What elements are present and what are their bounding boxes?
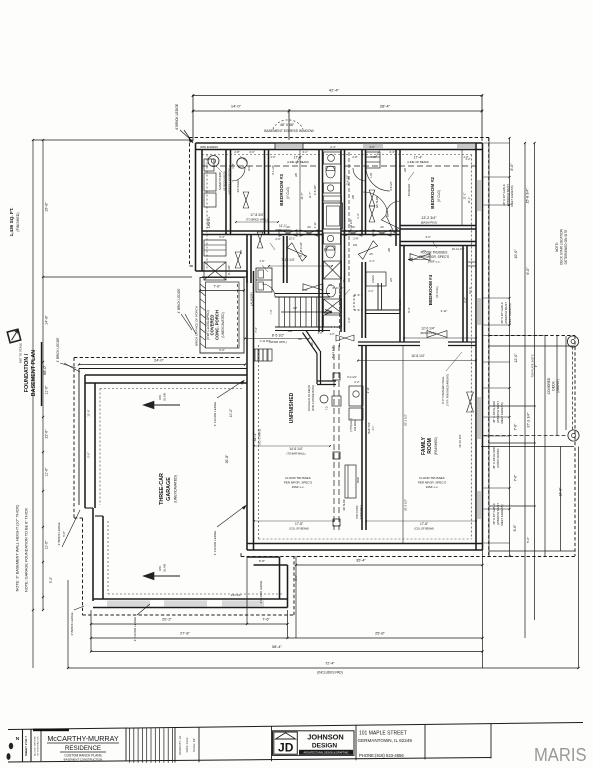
svg-text:35'-4": 35'-4" (356, 559, 366, 563)
svg-text:(LINE OF BEAM): (LINE OF BEAM) (287, 160, 309, 164)
svg-text:28'-4": 28'-4" (380, 104, 391, 109)
svg-text:19SF o.c.: 19SF o.c. (428, 260, 441, 264)
svg-text:4' BRICK LEDGE: 4' BRICK LEDGE (177, 289, 181, 314)
svg-text:12'-0": 12'-0" (514, 353, 518, 363)
deck post circles (567, 336, 578, 347)
svg-text:1'-4": 1'-4" (231, 163, 235, 168)
svg-text:RESIDENCE: RESIDENCE (65, 745, 101, 752)
stair treads (278, 297, 280, 327)
svg-text:1'-0": 1'-0" (347, 317, 351, 322)
svg-text:1,436 SQ. FT.: 1,436 SQ. FT. (9, 208, 14, 237)
svg-text:42'-4": 42'-4" (329, 88, 340, 93)
svg-text:MARIS: MARIS (534, 744, 587, 765)
svg-text:7'-6": 7'-6" (514, 474, 518, 482)
garage top wall (79, 368, 247, 370)
svg-text:DETERMINED ON SITE: DETERMINED ON SITE (564, 230, 568, 265)
svg-text:4' BRICK LEDGE: 4' BRICK LEDGE (70, 612, 74, 635)
svg-text:PER MFGR. SPEC'S: PER MFGR. SPEC'S (284, 481, 312, 485)
svg-text:TOP PLATE JNSTS: TOP PLATE JNSTS (531, 354, 535, 377)
left segmented dimension line (42, 140, 44, 610)
deck bottom dimension extension (246, 556, 248, 624)
svg-text:(VERIFY LOCATION): (VERIFY LOCATION) (227, 168, 231, 195)
svg-text:68'-0": 68'-0" (43, 365, 47, 375)
svg-text:4'-0": 4'-0" (249, 150, 254, 154)
svg-text:BASEMENT EGRESS WINDOW: BASEMENT EGRESS WINDOW (264, 129, 314, 133)
west exterior wall upper (195, 143, 197, 271)
svg-text:4'-8 1/4": 4'-8 1/4" (389, 181, 393, 191)
svg-text:4' FLOOR LEDGE: 4' FLOOR LEDGE (213, 402, 217, 426)
dim 16-8 (358, 360, 476, 362)
svg-text:2/0: 2/0 (294, 173, 298, 177)
svg-text:GERMANTOWN, IL 62249: GERMANTOWN, IL 62249 (358, 738, 413, 743)
stair up arrow (281, 311, 332, 313)
svg-text:SLAB: SLAB (163, 564, 167, 572)
covered deck dashed outline (489, 335, 575, 337)
svg-text:15'-8 3/4": 15'-8 3/4" (526, 188, 530, 204)
row2 shelves (204, 240, 226, 256)
svg-text:17'-8": 17'-8" (295, 522, 303, 526)
svg-text:4'-0": 4'-0" (369, 145, 374, 149)
svg-text:1'-11": 1'-11" (313, 222, 317, 229)
hall dashed centerline (348, 152, 350, 283)
svg-text:2/0: 2/0 (403, 168, 407, 172)
sump pump (208, 156, 219, 167)
svg-text:4'-0": 4'-0" (270, 155, 275, 159)
svg-text:101 MAPLE STREET: 101 MAPLE STREET (359, 731, 407, 737)
svg-text:4'-1 1/2": 4'-1 1/2" (271, 165, 275, 175)
kitchenette (349, 386, 363, 406)
sldr double doors (369, 190, 375, 206)
utility fixtures (204, 173, 216, 191)
svg-text:MEET EGRESS): MEET EGRESS) (500, 402, 504, 423)
svg-text:4'-0": 4'-0" (370, 155, 375, 159)
svg-text:DATE: 04-02: DATE: 04-02 (185, 737, 189, 752)
svg-text:(9' CLG): (9' CLG) (435, 286, 439, 297)
svg-text:ROUGH-IN AS REQ'D: ROUGH-IN AS REQ'D (307, 385, 311, 411)
svg-text:72'-4": 72'-4" (325, 662, 335, 666)
family room door (467, 392, 474, 412)
doors along hall wall (279, 230, 297, 236)
beam line with columns (333, 345, 335, 530)
utility extra shelf (204, 159, 214, 171)
svg-text:(TYP(ALL)): (TYP(ALL)) (349, 418, 353, 431)
left overall dimension line 68-0 (32, 140, 34, 668)
svg-text:4/0 WHLD: 4/0 WHLD (236, 180, 240, 193)
bath east wall (340, 150, 342, 284)
svg-text:MEET EGRESS): MEET EGRESS) (500, 504, 504, 525)
svg-text:4050 EGRESS: 4050 EGRESS (200, 145, 218, 149)
svg-text:2'-8": 2'-8" (352, 155, 357, 159)
svg-text:7'-3": 7'-3" (254, 327, 258, 332)
svg-text:2/6: 2/6 (387, 248, 391, 252)
svg-text:FLOOR TRUSSES: FLOOR TRUSSES (285, 476, 310, 480)
svg-text:37'-3 1/4": 37'-3 1/4" (527, 412, 531, 428)
svg-text:36R: 36R (288, 329, 293, 333)
scan specks left of title (9, 743, 13, 749)
svg-text:DRAWN BY: J.D.: DRAWN BY: J.D. (178, 735, 182, 755)
title block top border (8, 723, 583, 730)
svg-text:4/0 SLDR: 4/0 SLDR (375, 196, 379, 208)
svg-text:(9' CLG): (9' CLG) (437, 190, 441, 202)
svg-text:10'-0": 10'-0" (514, 249, 518, 259)
svg-text:2'-11": 2'-11" (366, 387, 370, 393)
family room north wall (358, 341, 420, 343)
svg-text:3/0: 3/0 (298, 337, 302, 341)
dimension 42-4 top line (193, 95, 482, 97)
svg-text:5'-0 1/4": 5'-0 1/4" (299, 242, 303, 252)
svg-text:COVERED: COVERED (547, 377, 551, 394)
title block verticals (22, 729, 24, 761)
dimension 20-2 and 7-6 (91, 623, 288, 625)
svg-text:6'-1 3/4": 6'-1 3/4" (227, 265, 231, 275)
svg-text:(9' CLG): (9' CLG) (286, 187, 290, 199)
svg-text:(INCLUDES PAD): (INCLUDES PAD) (317, 671, 342, 675)
svg-text:11'-1": 11'-1" (467, 197, 471, 204)
svg-text:2/6: 2/6 (307, 226, 311, 229)
svg-text:11'-6": 11'-6" (45, 540, 49, 549)
svg-text:3'-0": 3'-0" (318, 332, 323, 335)
svg-text:2'-8": 2'-8" (353, 237, 358, 241)
svg-text:2'-0": 2'-0" (330, 333, 335, 336)
svg-text:(UNEXCAVATED): (UNEXCAVATED) (221, 312, 225, 337)
svg-text:BASEMENT PLAN: BASEMENT PLAN (31, 350, 37, 397)
svg-text:NOTE:: NOTE: (555, 242, 559, 252)
dimension 58-4 (91, 651, 483, 653)
svg-text:(PATIO DOOR): (PATIO DOOR) (496, 448, 500, 467)
svg-text:SHEET 2 OF 7: SHEET 2 OF 7 (24, 736, 28, 756)
svg-text:13'-2 3/4": 13'-2 3/4" (421, 216, 437, 220)
svg-text:17'-8 3/4": 17'-8 3/4" (250, 213, 263, 217)
svg-text:JD: JD (278, 741, 294, 755)
svg-text:5'-4": 5'-4" (219, 235, 224, 239)
water heater (237, 158, 247, 168)
svg-text:BY CONTRACTOR: BY CONTRACTOR (37, 736, 40, 755)
svg-text:BAR TOP: BAR TOP (367, 422, 371, 434)
bottom extension lines (67, 580, 69, 668)
svg-text:10'-11 1/4": 10'-11 1/4" (452, 247, 465, 251)
covered conc porch outline (200, 278, 244, 354)
svg-text:1'-2": 1'-2" (465, 157, 470, 161)
svg-text:5'-3": 5'-3" (407, 307, 411, 312)
svg-text:FLOOR TRUSSES: FLOOR TRUSSES (421, 251, 448, 255)
svg-text:7'-10 1/4": 7'-10 1/4" (281, 258, 294, 262)
svg-text:36'-10 3/4": 36'-10 3/4" (458, 434, 462, 447)
svg-text:2'-2": 2'-2" (463, 297, 467, 302)
dimension 14-0 / 28-4 line (193, 110, 482, 112)
svg-text:27'-8": 27'-8" (180, 632, 190, 636)
svg-text:4' BRICK LEDGE: 4' BRICK LEDGE (175, 103, 179, 130)
svg-text:MEET EGRESS): MEET EGRESS) (510, 185, 514, 206)
svg-text:(COL OF BEAM): (COL OF BEAM) (289, 527, 308, 531)
svg-text:CONC. PORCH: CONC. PORCH (215, 310, 220, 340)
svg-text:25'-2 1/2": 25'-2 1/2" (404, 499, 408, 511)
svg-text:PER MFGR. SPEC'S: PER MFGR. SPEC'S (418, 481, 446, 485)
svg-text:2/4: 2/4 (239, 250, 243, 254)
bedroom3 west wall (264, 150, 266, 235)
garage southeast jog wall (279, 557, 281, 599)
svg-text:26'-8": 26'-8" (225, 454, 229, 463)
svg-text:14'-0": 14'-0" (231, 104, 242, 109)
svg-text:(IF REQUIRED): (IF REQUIRED) (223, 171, 227, 191)
svg-text:PHONE:(618) 523-4656: PHONE:(618) 523-4656 (359, 753, 404, 758)
garage west wall lower (92, 508, 94, 601)
svg-text:4' FLOOR LEDGE: 4' FLOOR LEDGE (213, 531, 217, 555)
svg-text:4/0 WHLD: 4/0 WHLD (407, 184, 411, 196)
svg-text:5'-9 1/4": 5'-9 1/4" (331, 325, 342, 329)
svg-text:2/6: 2/6 (380, 226, 384, 229)
svg-text:2'-8 1/2": 2'-8 1/2" (313, 185, 317, 195)
svg-text:THREE-CAR: THREE-CAR (159, 473, 165, 505)
svg-text:3'-0": 3'-0" (425, 235, 430, 239)
svg-text:SUMP PUMP: SUMP PUMP (218, 172, 222, 190)
svg-text:12'-1": 12'-1" (289, 237, 296, 241)
svg-text:ALL DIM. VERIFIED: ALL DIM. VERIFIED (34, 736, 37, 756)
room center window lines (299, 150, 301, 231)
hall centerline lower segment (339, 283, 341, 348)
svg-text:16'-8 1/4": 16'-8 1/4" (411, 354, 424, 358)
svg-text:JOHNSON: JOHNSON (307, 733, 344, 742)
svg-text:8'-0": 8'-0" (510, 163, 514, 171)
line of beam upper (202, 165, 319, 167)
svg-text:11'-1": 11'-1" (463, 193, 467, 200)
porch width dimension 7-0 (200, 290, 244, 292)
svg-text:16'-8": 16'-8" (45, 202, 49, 212)
svg-text:11'-6": 11'-6" (87, 409, 91, 416)
bar counter (345, 465, 356, 498)
stair walls (275, 293, 330, 295)
svg-text:7'-6": 7'-6" (262, 618, 270, 622)
row2 divider wall (283, 236, 285, 283)
north arrow (7, 329, 20, 342)
garage south wall (93, 598, 288, 600)
svg-text:6'-0 3/4": 6'-0 3/4" (333, 286, 344, 290)
svg-text:McCARTHY-MURRAY: McCARTHY-MURRAY (47, 734, 119, 743)
title block bottom border (8, 758, 491, 763)
svg-text:32'-1": 32'-1" (253, 432, 257, 441)
svg-text:11'-6": 11'-6" (45, 385, 49, 394)
svg-text:(UNEXCAVATED): (UNEXCAVATED) (174, 475, 178, 503)
linen closet top (366, 152, 380, 168)
svg-text:19SF o.c.: 19SF o.c. (426, 485, 439, 489)
dashed ledge bottom of house and deck (241, 556, 575, 558)
svg-text:LIN: LIN (353, 243, 357, 247)
svg-text:3'-11": 3'-11" (441, 309, 448, 313)
svg-text:5'-8": 5'-8" (62, 531, 66, 537)
svg-text:2/4: 2/4 (389, 278, 393, 282)
window openings east wall (477, 180, 482, 211)
west exterior wall lower (246, 271, 248, 550)
svg-text:48" X 48": 48" X 48" (280, 123, 295, 127)
svg-text:22'-6": 22'-6" (45, 429, 49, 439)
right wall extension lines (484, 142, 510, 144)
svg-text:2'-2": 2'-2" (354, 380, 359, 384)
svg-text:NOTE: 9" BASEMENT WALL HEIGHT: NOTE: 9" BASEMENT WALL HEIGHT (10'" THIC… (16, 504, 20, 591)
svg-text:4' BRICK LEDGE: 4' BRICK LEDGE (56, 338, 60, 363)
svg-text:4/0 SLDR: 4/0 SLDR (398, 299, 402, 311)
svg-text:3": 3" (534, 365, 538, 367)
svg-text:25'-8": 25'-8" (375, 632, 385, 636)
bedroom2 west wall (395, 150, 397, 247)
svg-text:4" WD WALL: 4" WD WALL (359, 504, 363, 520)
svg-text:3'-1": 3'-1" (302, 150, 307, 154)
svg-text:8'-0" FINISHED WALL: 8'-0" FINISHED WALL (441, 376, 445, 404)
svg-text:BEDROOM #3: BEDROOM #3 (279, 174, 285, 206)
garage side stair rail detail (254, 349, 256, 361)
egress window frame (274, 143, 276, 150)
svg-text:25'-2 1/2": 25'-2 1/2" (404, 414, 408, 426)
svg-text:(TO BAR WALL): (TO BAR WALL) (286, 452, 305, 456)
svg-text:58'-4": 58'-4" (272, 645, 282, 649)
bath2 fixtures (324, 233, 341, 244)
svg-text:5'-0": 5'-0" (87, 452, 91, 458)
svg-text:LINEN: LINEN (371, 275, 375, 283)
svg-text:5'-0": 5'-0" (219, 348, 225, 352)
svg-text:DECK STAIR LOCATION: DECK STAIR LOCATION (560, 228, 564, 265)
closet door arc room2 (232, 168, 245, 181)
svg-text:ROOM: ROOM (427, 438, 433, 454)
svg-text:6'-2 1/4": 6'-2 1/4" (347, 375, 357, 379)
svg-text:BEDROOM #2: BEDROOM #2 (430, 177, 436, 209)
svg-text:RD.: RD. (158, 565, 162, 570)
svg-text:(TO STAIRS): (TO STAIRS) (258, 429, 262, 445)
svg-text:17'-8": 17'-8" (420, 522, 428, 526)
svg-text:(COL OF BEAM): (COL OF BEAM) (414, 527, 433, 531)
svg-text:GARAGE: GARAGE (166, 477, 172, 501)
road slab arrow lower (152, 575, 180, 577)
svg-text:5'-2": 5'-2" (49, 577, 53, 583)
south exterior wall (247, 543, 483, 545)
svg-text:PKT 6 6PR: PKT 6 6PR (355, 505, 359, 518)
svg-text:FOUNDATION /: FOUNDATION / (24, 353, 30, 392)
svg-text:17'-4": 17'-4" (414, 156, 423, 160)
road slab arrow upper (152, 404, 180, 406)
title header black bar (33, 729, 69, 732)
svg-text:SCALE: 1/4": SCALE: 1/4" (192, 738, 196, 753)
svg-text:BAR: BAR (356, 477, 360, 483)
svg-text:6'-6": 6'-6" (513, 524, 517, 532)
svg-text:4' FLOOR LEDGE: 4' FLOOR LEDGE (259, 580, 263, 603)
svg-text:UNFINISHED: UNFINISHED (289, 392, 295, 423)
kitchen bar dashed box (353, 295, 355, 310)
svg-text:N: N (16, 736, 19, 741)
scatter leaders (240, 156, 247, 162)
svg-text:2'-1": 2'-1" (368, 289, 373, 293)
svg-text:14'-8": 14'-8" (45, 315, 49, 325)
svg-text:6'-0": 6'-0" (526, 267, 530, 275)
family room dim line 25-2 (402, 346, 404, 543)
svg-text:DESIGN: DESIGN (312, 743, 338, 750)
hall east wall (361, 150, 363, 235)
svg-text:12'-0 1/4": 12'-0 1/4" (421, 327, 434, 331)
bath column lower extension (318, 283, 320, 332)
svg-text:(LINE OF BEAM): (LINE OF BEAM) (407, 160, 429, 164)
svg-text:2x6 WALL: 2x6 WALL (353, 419, 357, 431)
svg-text:UP: UP (293, 306, 297, 310)
svg-text:2'-1": 2'-1" (369, 259, 374, 263)
svg-text:(FINISHED): (FINISHED) (16, 212, 20, 231)
deck dashed post line (572, 347, 574, 432)
stair landing wall south (316, 354, 318, 385)
svg-text:2'-8": 2'-8" (234, 150, 239, 154)
svg-text:11'-6": 11'-6" (45, 467, 49, 476)
svg-text:24'-0": 24'-0" (154, 359, 164, 363)
svg-text:HALL/STAIR: HALL/STAIR (338, 292, 342, 308)
svg-text:3/0: 3/0 (310, 342, 314, 346)
svg-text:MEET EGRESS): MEET EGRESS) (508, 303, 512, 324)
closet row wall right (400, 241, 476, 243)
svg-text:11'-7": 11'-7" (300, 193, 304, 200)
stair down to garage (254, 361, 270, 363)
svg-text:2/6: 2/6 (369, 253, 373, 256)
svg-text:2/6: 2/6 (323, 248, 327, 252)
bedroom2 south wall (400, 225, 476, 227)
svg-text:16'-8": 16'-8" (559, 487, 563, 496)
bath fixtures (324, 152, 341, 164)
dim 12-0 basm pkg (404, 337, 476, 339)
bar wall (361, 345, 363, 530)
svg-text:NOTE: GARAGE FOUNDATION TO BE: NOTE: GARAGE FOUNDATION TO BE 8" THICK (25, 508, 29, 592)
hall south wall left (202, 230, 322, 232)
east exterior wall (475, 143, 477, 550)
door arc hall closet (353, 168, 366, 181)
svg-text:7'-3": 7'-3" (269, 309, 273, 314)
stair landing diagonal wall (306, 331, 320, 352)
svg-text:HALL: HALL (343, 276, 346, 283)
svg-text:14'-6 1/4": 14'-6 1/4" (289, 447, 302, 451)
svg-text:7'-6": 7'-6" (514, 423, 518, 431)
svg-text:5'-0": 5'-0" (526, 537, 530, 543)
svg-text:DECK: DECK (552, 381, 556, 391)
svg-text:10'-2": 10'-2" (229, 408, 233, 417)
johnson design logo box (273, 731, 355, 756)
middle closets right (361, 262, 363, 338)
dimension 72-4 includes pad (68, 667, 579, 669)
svg-text:W.I.C.: W.I.C. (468, 286, 472, 294)
floor drain (320, 395, 328, 403)
wic inner shelf lines (467, 261, 476, 263)
window openings top wall (276, 144, 303, 149)
svg-text:1'-6": 1'-6" (259, 259, 264, 263)
dimension 27-8 and 25-8 (91, 637, 483, 639)
bath tub (324, 203, 343, 229)
garage door openings (107, 601, 150, 607)
svg-text:BRICK ON FACE OF PORCH: BRICK ON FACE OF PORCH (195, 306, 199, 346)
svg-text:UNFIN.: UNFIN. (207, 216, 211, 228)
svg-text:PER MFGR. SPEC'S: PER MFGR. SPEC'S (419, 255, 449, 259)
row2 closet wall (246, 235, 248, 284)
wic walls (399, 246, 401, 343)
svg-text:4' FLOOR LEDGE: 4' FLOOR LEDGE (133, 617, 137, 641)
svg-text:2'-4": 2'-4" (389, 150, 394, 154)
porch brick hatch (200, 284, 206, 289)
svg-text:4' BRICK LEDGE: 4' BRICK LEDGE (57, 522, 61, 545)
svg-text:14'2 3/4": 14'2 3/4" (231, 593, 242, 597)
svg-text:2'-0": 2'-0" (275, 237, 280, 241)
svg-text:W.H.: W.H. (247, 165, 251, 171)
svg-text:20'-2": 20'-2" (162, 618, 172, 622)
deck horizontal lines (489, 345, 575, 347)
svg-text:(STAIR OPN.): (STAIR OPN.) (269, 340, 287, 344)
svg-text:(BASM PKG): (BASM PKG) (421, 221, 438, 225)
svg-text:(ABOVE): (ABOVE) (556, 379, 560, 392)
svg-text:2/6: 2/6 (351, 195, 355, 199)
svg-text:LIN.: LIN. (369, 172, 373, 177)
dashed ledge garage outline (74, 357, 241, 359)
svg-text:(TYP. FINISHED AREAS): (TYP. FINISHED AREAS) (446, 374, 450, 406)
svg-text:1'-3": 1'-3" (356, 213, 360, 218)
svg-text:SLAB: SLAB (163, 393, 167, 401)
row2 doors (257, 232, 263, 248)
